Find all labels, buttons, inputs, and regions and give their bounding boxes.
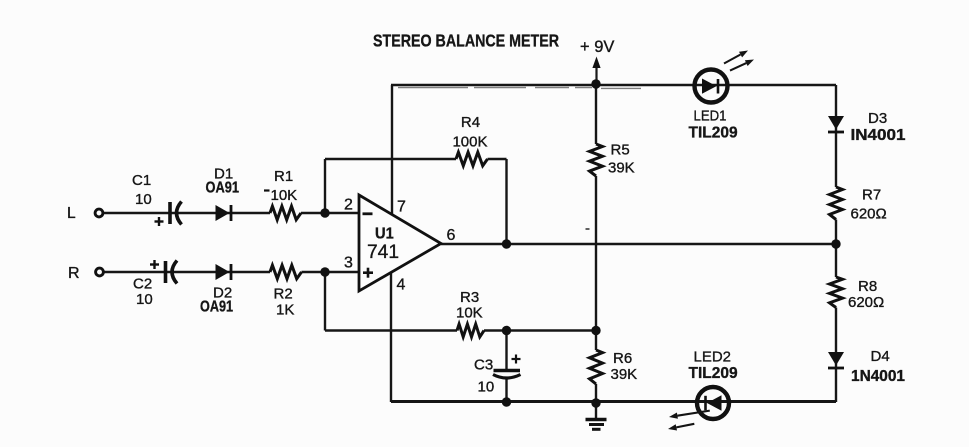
svg-text:R: R [68,265,80,282]
svg-text:STEREO BALANCE METER: STEREO BALANCE METER [373,31,559,51]
svg-text:741: 741 [367,242,399,263]
svg-text:LED1: LED1 [694,108,727,125]
svg-text:R3: R3 [460,289,479,306]
svg-text:OA91: OA91 [200,299,233,316]
svg-text:TIL209: TIL209 [689,125,738,142]
svg-text:620Ω: 620Ω [848,294,884,311]
svg-text:LED2: LED2 [694,349,732,366]
svg-text:7: 7 [397,199,406,216]
svg-text:U1: U1 [375,226,394,243]
svg-text:10: 10 [136,291,153,308]
svg-text:R4: R4 [461,114,480,131]
svg-text:C1: C1 [132,172,151,189]
svg-text:R8: R8 [858,278,877,295]
svg-text:L: L [67,205,76,222]
svg-text:C2: C2 [133,276,152,293]
svg-text:R1: R1 [274,168,293,185]
svg-text:10K: 10K [271,187,298,204]
svg-text:+ 9V: + 9V [580,38,614,56]
svg-text:6: 6 [447,227,456,244]
svg-text:R6: R6 [613,350,632,367]
svg-text:10: 10 [478,379,495,396]
svg-text:4: 4 [397,277,406,294]
svg-text:2: 2 [344,197,353,214]
svg-text:39K: 39K [608,160,635,177]
svg-text:39K: 39K [611,366,638,383]
svg-text:D3: D3 [868,110,887,127]
svg-text:TIL209: TIL209 [689,365,738,382]
svg-text:R7: R7 [862,187,881,204]
svg-text:R2: R2 [274,286,293,303]
svg-text:IN4001: IN4001 [851,127,906,144]
svg-text:1K: 1K [276,302,294,319]
svg-text:D4: D4 [871,348,890,365]
svg-text:C3: C3 [474,357,493,374]
svg-text:OA91: OA91 [206,180,240,197]
svg-text:1N4001: 1N4001 [851,368,905,385]
svg-text:10: 10 [135,191,152,208]
svg-text:100K: 100K [452,134,487,151]
svg-text:10K: 10K [456,305,483,322]
svg-text:R5: R5 [611,142,630,159]
svg-text:3: 3 [344,255,353,272]
svg-text:620Ω: 620Ω [851,206,887,223]
